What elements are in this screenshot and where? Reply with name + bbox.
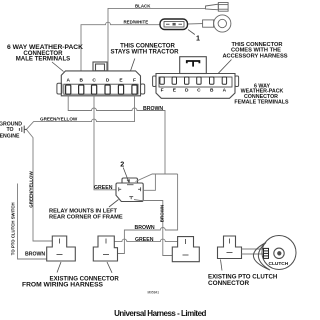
connector J1 pin letters A-F: [66, 78, 136, 84]
leader from accessory-harness label to connector J2 tab: [218, 60, 231, 74]
svg-text:CONNECTOR: CONNECTOR: [208, 280, 249, 287]
leader from stays-with-tractor label to connector J1: [131, 59, 135, 71]
connector P1: existing connector from wiring harness (left): [47, 236, 76, 261]
relay K1 internal contacts: [119, 185, 141, 200]
connector P3: harness side PTO connector: [172, 237, 199, 262]
svg-text:C: C: [92, 78, 96, 84]
connector J1: 6-way weather-pack male: [57, 62, 145, 96]
wires: connector P4 to clutch terminal block: [242, 249, 264, 254]
svg-text:ACCESSORY HARNESS: ACCESSORY HARNESS: [222, 54, 287, 60]
svg-text:BROWN: BROWN: [135, 225, 155, 231]
svg-text:STAYS WITH TRACTOR: STAYS WITH TRACTOR: [111, 48, 180, 55]
svg-text:FROM WIRING HARNESS: FROM WIRING HARNESS: [22, 282, 104, 289]
wire brown: relay bottom contact down to connector P3: [134, 200, 172, 256]
svg-text:A: A: [223, 87, 227, 93]
svg-text:BROWN: BROWN: [159, 205, 164, 223]
svg-text:ENGINE: ENGINE: [0, 133, 20, 139]
PTO clutch terminal block: [264, 248, 269, 258]
wire green/yellow: ground down left side to connector P1: [27, 130, 53, 241]
label 1 with leader to fuse: [188, 30, 195, 35]
wire brown: male pin A down, across (hops), down right side to relay junction: [68, 96, 165, 174]
svg-text:GREEN/YELLOW: GREEN/YELLOW: [28, 171, 33, 208]
label: this connector stays with tractor: [111, 42, 180, 55]
svg-text:Universal Harness - Limited: Universal Harness - Limited: [114, 309, 206, 318]
svg-text:D: D: [185, 87, 189, 93]
leader from relay label to relay: [109, 200, 119, 208]
PTO clutch body circle: [262, 236, 296, 270]
connector J2 pin letters F-A: [161, 87, 227, 93]
wire brown: junction above relay - diagonal to coil, stub to right contact, down to brown bus: [118, 174, 178, 254]
svg-text:A: A: [66, 78, 70, 84]
svg-text:M95841: M95841: [148, 291, 160, 295]
svg-text:F: F: [133, 78, 136, 84]
label: 6 way weather-pack connector male terminals: [7, 44, 83, 62]
svg-text:BLACK: BLACK: [135, 3, 151, 8]
svg-text:2: 2: [120, 160, 124, 169]
svg-text:COMES WITH THE: COMES WITH THE: [231, 47, 281, 53]
svg-text:GREEN/YELLOW: GREEN/YELLOW: [40, 117, 78, 122]
svg-text:D: D: [106, 78, 110, 84]
svg-text:BROWN: BROWN: [25, 252, 45, 258]
wire green: male pin C down to relay left contact: [94, 94, 116, 190]
leader line to PTO clutch switch, into connector P1: [18, 184, 47, 260]
svg-text:B: B: [210, 87, 214, 93]
wire green: connector P2 to connector P3 with hops: [114, 239, 177, 241]
svg-text:GREEN: GREEN: [94, 185, 113, 191]
spade terminal (quick disconnect): [206, 3, 229, 12]
svg-text:F: F: [161, 87, 164, 93]
label: ground to engine: [0, 121, 22, 139]
ground symbol (to engine): [19, 126, 26, 134]
svg-text:TO: TO: [6, 127, 13, 133]
connector J1 pin slots: [66, 85, 137, 94]
svg-text:RED/WHITE: RED/WHITE: [124, 19, 149, 24]
svg-text:C: C: [197, 87, 201, 93]
label: this connector comes with the accessory harness: [222, 42, 287, 60]
connector P4: existing PTO clutch connector: [218, 236, 242, 259]
connector J2 latch symbol: [187, 61, 200, 67]
fuse F1: [160, 19, 188, 30]
leader from male-terminals label to connector J1: [52, 62, 64, 72]
svg-text:TO PTO CLUTCH SWITCH: TO PTO CLUTCH SWITCH: [11, 202, 16, 255]
connector J2 pin slots: [160, 77, 227, 84]
connector P2: existing connector from wiring harness (middle): [93, 236, 117, 261]
ring terminal: [203, 15, 231, 32]
relay K1: [116, 178, 143, 202]
wire black: pin D up and across to spade terminal: [108, 8, 206, 71]
svg-text:CLUTCH: CLUTCH: [269, 261, 289, 267]
svg-text:GREEN: GREEN: [135, 237, 154, 243]
label: 6 way weather-pack connector female terminals: [234, 83, 289, 105]
svg-text:FEMALE TERMINALS: FEMALE TERMINALS: [234, 100, 289, 106]
svg-text:BROWN: BROWN: [143, 106, 163, 112]
wire red/white: pin B up, across with hop over black vertical, to fuse and ring terminal: [81, 22, 203, 71]
svg-text:1: 1: [196, 33, 200, 42]
wire green/yellow: ground to male pin F with hop: [27, 94, 135, 129]
PTO clutch mounting crescent: [253, 243, 270, 271]
leader to connector P4: [221, 260, 223, 271]
svg-text:MALE TERMINALS: MALE TERMINALS: [16, 56, 71, 63]
leader to connector P2: [107, 262, 112, 273]
connector J2: 6-way weather-pack female: [153, 57, 239, 99]
svg-text:REAR CORNER OF FRAME: REAR CORNER OF FRAME: [49, 215, 123, 221]
svg-text:B: B: [79, 78, 83, 84]
leader to connector P1: [57, 262, 61, 273]
